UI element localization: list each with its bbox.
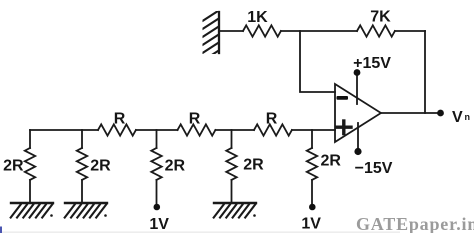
output terminal dot — [437, 110, 444, 117]
op-amp minus marking — [337, 96, 349, 100]
wire feedback vertical — [424, 31, 426, 113]
branch node2: lead wire — [81, 130, 83, 148]
svg-text:GATEpaper.in: GATEpaper.in — [356, 214, 474, 233]
+15V dot — [354, 69, 361, 76]
bottom edge artifact strip — [0, 231, 400, 233]
wire ground-wall to 1K — [219, 30, 243, 32]
svg-text:2R: 2R — [243, 157, 264, 174]
wire to ground (node2) — [81, 180, 83, 202]
wire 1K to 7K (through node A) — [281, 30, 357, 32]
ladder wire: left corner to R (node1..node2..R1) — [30, 129, 98, 131]
svg-text:R: R — [114, 111, 126, 128]
-15V dot — [354, 148, 361, 155]
svg-text:2R: 2R — [320, 153, 341, 170]
resistor 2R (node5) — [307, 148, 317, 180]
branch node4: lead wire — [231, 130, 233, 148]
wire R2 to R3 — [216, 129, 255, 131]
op-amp plus marking — [337, 121, 351, 134]
svg-text:2R: 2R — [165, 158, 186, 175]
svg-text:n: n — [465, 112, 471, 122]
svg-text:2R: 2R — [3, 158, 24, 175]
svg-text:R: R — [266, 111, 278, 128]
svg-text:1K: 1K — [247, 9, 268, 26]
blue corner tick — [0, 227, 2, 234]
+15V supply line — [356, 74, 358, 104]
wire node A down to inverting input — [300, 31, 335, 92]
wire R3 to op-amp non-inverting input — [292, 129, 335, 131]
ground (node1) — [11, 203, 53, 218]
svg-text:+15V: +15V — [353, 55, 391, 72]
1V source terminal dot (node5) — [309, 204, 316, 211]
wire to ground (node1) — [29, 180, 31, 202]
resistor R (node3-node4) — [178, 124, 216, 135]
branch node5: lead wire — [311, 130, 313, 148]
svg-text:1V: 1V — [149, 216, 169, 233]
resistor 1K — [243, 25, 281, 36]
svg-text:7K: 7K — [370, 9, 391, 26]
-15V supply line — [357, 123, 359, 150]
wire op-amp output — [381, 112, 439, 114]
svg-text:V: V — [452, 109, 463, 126]
svg-text:−15V: −15V — [355, 160, 393, 177]
svg-text:R: R — [189, 111, 201, 128]
wire to ground (node4) — [231, 180, 233, 202]
wire R1 to R2 — [136, 129, 178, 131]
ground (node2) — [65, 203, 107, 218]
ground wall (top, left of R1K) — [201, 9, 221, 62]
branch node3: lead wire — [156, 130, 158, 148]
wire to 1V source (node3) — [156, 180, 158, 204]
1V source terminal dot (node3) — [154, 204, 161, 211]
ground (node4) — [214, 203, 256, 218]
resistor 2R (node2) — [77, 148, 87, 180]
resistor 2R (node4) — [226, 148, 236, 180]
svg-text:1V: 1V — [301, 216, 321, 233]
resistor 7K — [357, 25, 395, 36]
branch node1: lead wire — [29, 130, 31, 148]
wire 7K to feedback corner — [395, 30, 425, 32]
resistor R (node2-node3) — [98, 124, 136, 135]
resistor 2R (node3) — [151, 148, 161, 180]
resistor R (node4-node5) — [254, 124, 292, 135]
op-amp U1 — [335, 84, 381, 142]
svg-text:2R: 2R — [90, 158, 111, 175]
wire to 1V source (node5) — [311, 180, 313, 204]
resistor 2R (node1) — [25, 148, 35, 180]
